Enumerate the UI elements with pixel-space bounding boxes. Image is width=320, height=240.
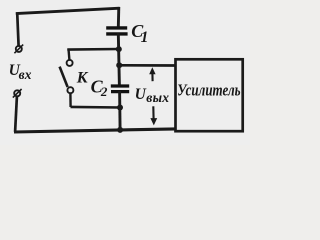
svg-text:2: 2 [100,84,108,99]
amplifier box U1 [176,59,243,131]
wire C2 to bottom [118,91,121,131]
wire switch top stub [67,49,70,60]
wire center vertical (C1 to C2) [118,33,119,86]
wire switch bottom stub [69,93,72,107]
label Uvx [9,62,32,82]
node bottom-wire junction [117,127,123,133]
capacitor C1 [106,28,127,34]
arrow Uvyx up [149,67,155,81]
node switch-bottom junction [117,105,123,111]
node switch-top junction [116,46,122,52]
wire C1 top stub [117,7,120,28]
label C2 [91,77,108,99]
label C1 [131,21,148,46]
svg-text:U: U [135,86,147,103]
svg-text:1: 1 [141,29,149,46]
node amplifier-wire junction [116,62,122,68]
label Uvyx [135,86,170,105]
terminal input lower [13,89,22,98]
switch K [60,60,74,93]
svg-text:вых: вых [146,90,169,105]
svg-text:вх: вх [19,67,32,82]
wire left lower vertical [15,97,17,132]
wire top horizontal [16,8,120,13]
capacitor C2 [111,86,129,92]
wire to amplifier [119,64,176,67]
wire left upper vertical [17,12,18,46]
svg-text:К: К [76,69,89,86]
wire bottom horizontal [14,129,176,132]
terminal input upper [14,45,23,54]
arrow Uvyx down [150,106,157,125]
wire switch top horizontal [67,48,119,51]
wire switch bottom horizontal [71,106,121,109]
svg-text:Усилитель: Усилитель [177,81,241,100]
